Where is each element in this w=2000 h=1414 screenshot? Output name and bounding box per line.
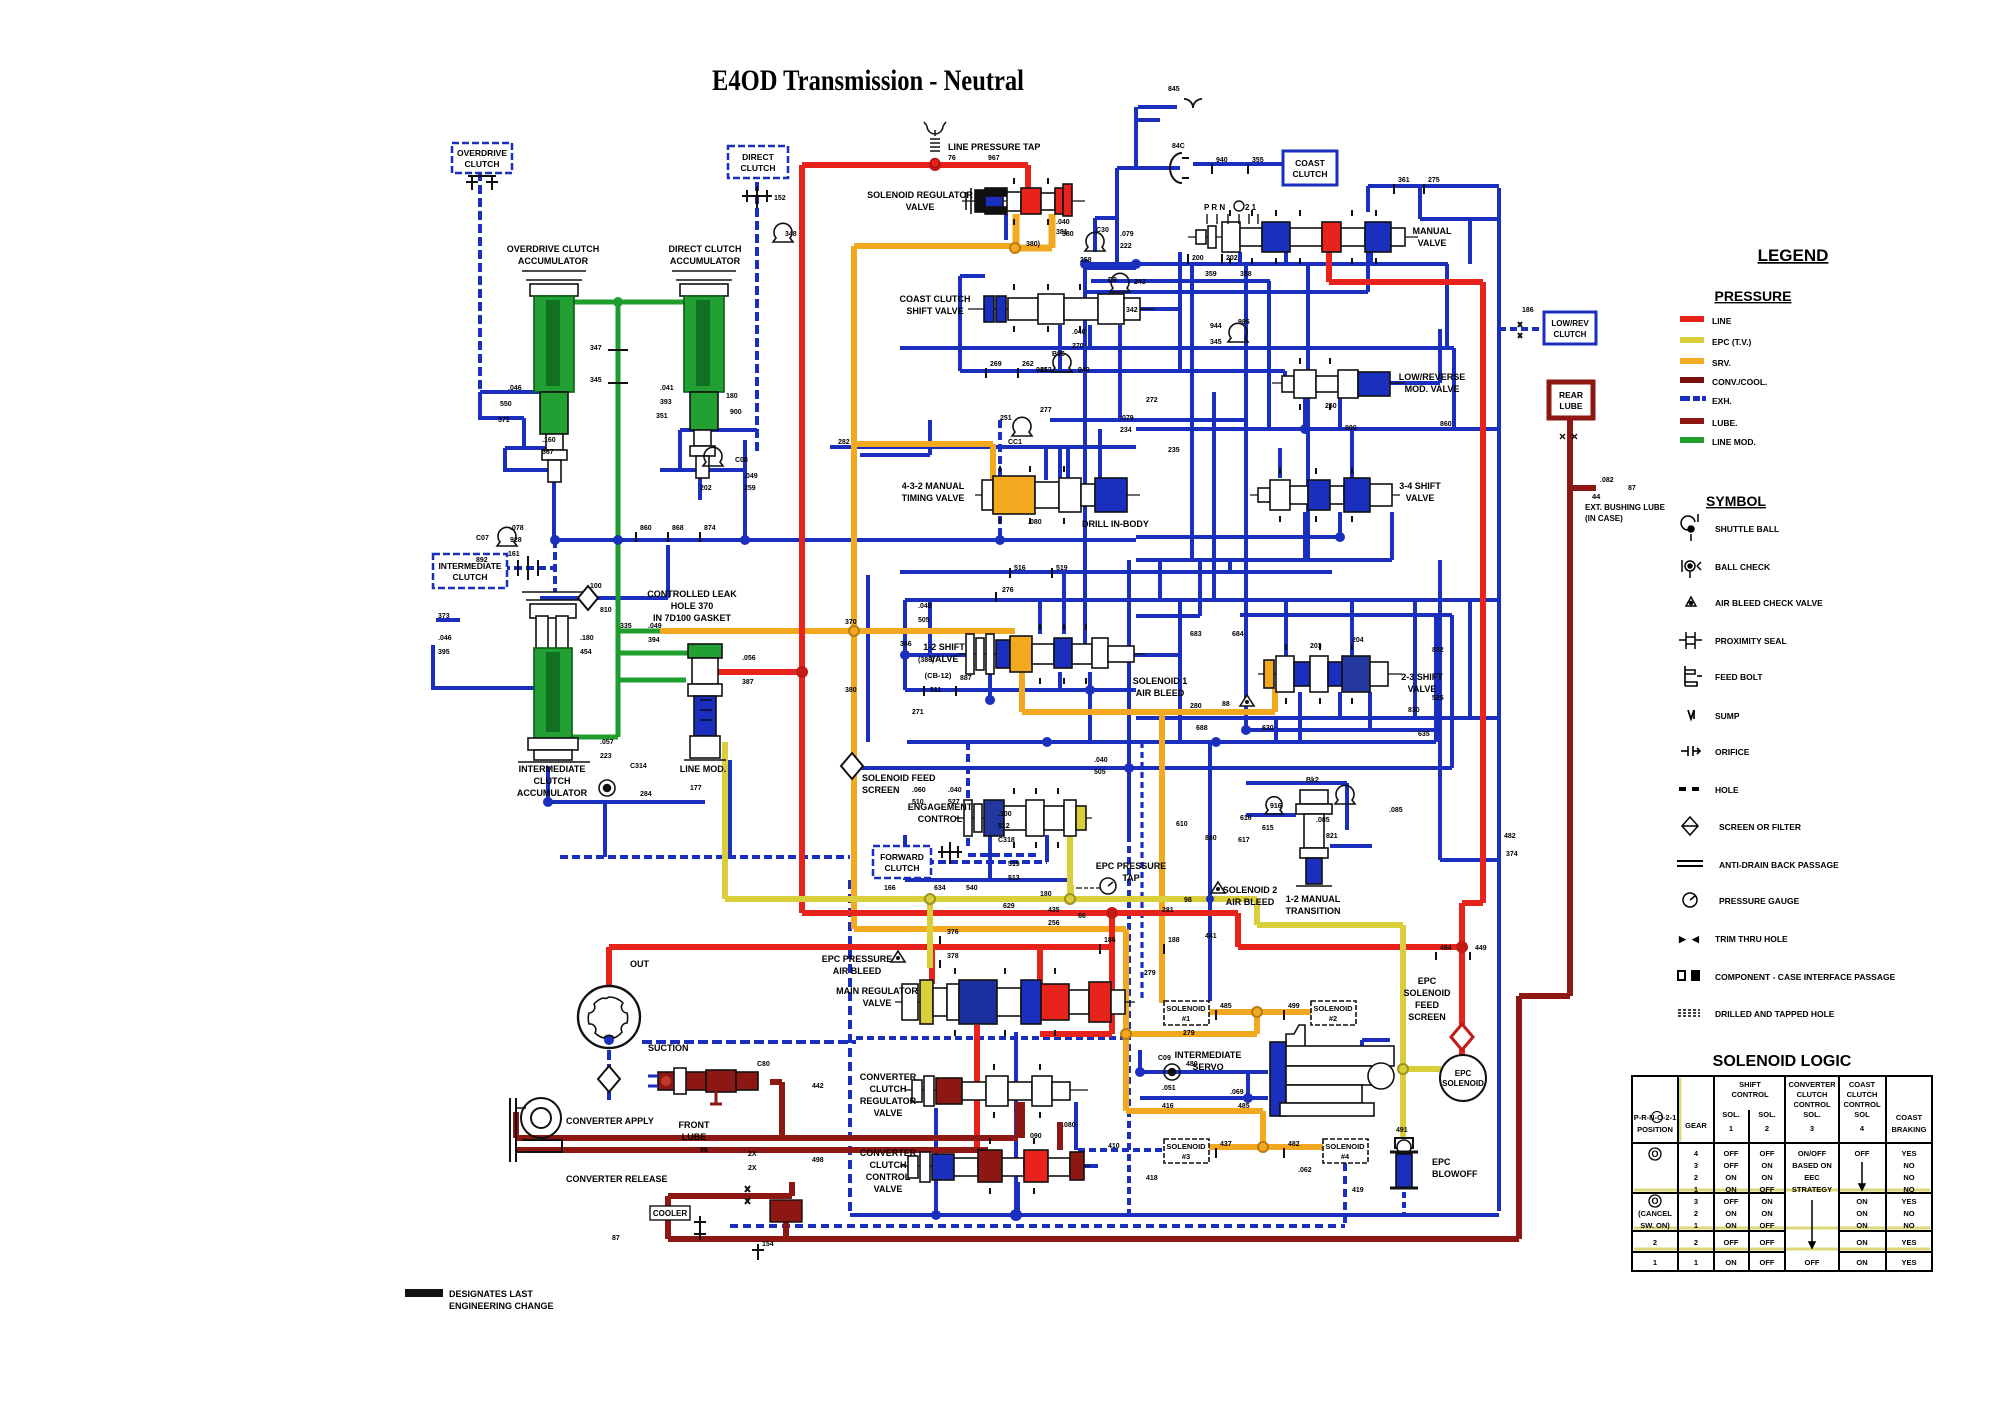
- svg-text:(386): (386): [918, 657, 934, 664]
- svg-text:87: 87: [1628, 485, 1636, 492]
- bell d8: [1110, 273, 1130, 292]
- svg-text:243: 243: [1134, 279, 1146, 286]
- svg-text:IN 7D100 GASKET: IN 7D100 GASKET: [653, 613, 732, 623]
- svg-text:1-2 SHIFT: 1-2 SHIFT: [923, 642, 965, 652]
- svg-text:.085: .085: [1389, 807, 1403, 814]
- wire blowoff bottom stub: [1402, 1192, 1406, 1215]
- svg-text:ON: ON: [1725, 1185, 1736, 1194]
- svg-text:STRATEGY: STRATEGY: [1792, 1185, 1832, 1194]
- wire 2-3 valve top stubs: [1286, 600, 1352, 656]
- wire x1246 vertical: [1244, 429, 1248, 560]
- wire y768: [860, 766, 1452, 770]
- svg-text:.060: .060: [912, 787, 926, 794]
- svg-text:370: 370: [845, 619, 857, 626]
- intermediate clutch accumulator: [518, 592, 590, 762]
- wire servo right riser: [1362, 1040, 1390, 1078]
- converter clutch regulator valve: [905, 1064, 1088, 1118]
- forward clutch box: [873, 846, 931, 878]
- 1-2 manual transition valve: [1296, 790, 1332, 886]
- svg-text:810: 810: [600, 607, 612, 614]
- svg-text:868: 868: [672, 525, 684, 532]
- svg-text:505: 505: [1094, 769, 1106, 776]
- green line main vertical: [570, 302, 618, 737]
- svg-text:INTERMEDIATE: INTERMEDIATE: [519, 764, 586, 774]
- wire x930 middle: [928, 600, 932, 655]
- svg-text:830: 830: [1408, 707, 1420, 714]
- svg-text:418: 418: [1146, 1175, 1158, 1182]
- svg-text:SOLENOID FEED: SOLENOID FEED: [862, 773, 936, 783]
- svg-text:ACCUMULATOR: ACCUMULATOR: [670, 256, 741, 266]
- front lube component: [648, 1068, 758, 1104]
- svg-text:200: 200: [1192, 255, 1204, 262]
- svg-text:485: 485: [1220, 1003, 1232, 1010]
- wire sol2 air bleed drop: [1208, 742, 1212, 1001]
- wire x1246 mid vertical: [1244, 560, 1248, 718]
- svg-text:ORIFICE: ORIFICE: [1715, 747, 1750, 757]
- wire 3-4 valve bottom: [1136, 512, 1392, 560]
- wire y742 long: [907, 740, 1436, 744]
- svg-text:SRV.: SRV.: [1712, 358, 1731, 368]
- svg-text:MANUAL: MANUAL: [1413, 226, 1452, 236]
- red drops into main regulator: [932, 947, 1040, 984]
- svg-text:EPC: EPC: [1455, 1069, 1472, 1078]
- direct clutch accumulator: [672, 271, 736, 478]
- svg-text:COAST: COAST: [1295, 158, 1326, 168]
- svg-text:NO: NO: [1903, 1185, 1914, 1194]
- svg-text:186: 186: [1104, 937, 1116, 944]
- svg-text:279: 279: [1183, 1030, 1195, 1037]
- svg-text:449: 449: [1475, 945, 1487, 952]
- svg-text:CONVERTER: CONVERTER: [860, 1072, 917, 1082]
- svg-text:C314: C314: [630, 763, 647, 770]
- svg-text:373: 373: [438, 613, 450, 620]
- svg-text:LINE PRESSURE TAP: LINE PRESSURE TAP: [948, 142, 1040, 152]
- svg-text:CLUTCH: CLUTCH: [1847, 1090, 1878, 1099]
- svg-text:416: 416: [1162, 1103, 1174, 1110]
- green stub to line mod upper: [618, 651, 688, 656]
- wire lowrev left stub: [1283, 371, 1287, 383]
- svg-text:COOLER: COOLER: [653, 1209, 687, 1218]
- svg-text:.079: .079: [1120, 231, 1134, 238]
- svg-text:96: 96: [700, 1147, 708, 1154]
- bell c07: [497, 527, 517, 546]
- svg-text:967: 967: [988, 155, 1000, 162]
- svg-text:C80: C80: [757, 1061, 770, 1068]
- wire suction line: [609, 1042, 856, 1102]
- svg-text:.080: .080: [1028, 519, 1042, 526]
- svg-text:346: 346: [900, 641, 912, 648]
- svg-text:EXH.: EXH.: [1712, 396, 1732, 406]
- svg-text:271: 271: [912, 709, 924, 716]
- svg-text:394: 394: [648, 637, 660, 644]
- screen diamond int accum: [578, 586, 598, 610]
- symbol orifice: [1681, 746, 1700, 756]
- wire manual valve top: [1368, 186, 1499, 212]
- svg-text:387: 387: [742, 679, 754, 686]
- svg-text:CONVERTER APPLY: CONVERTER APPLY: [566, 1116, 654, 1126]
- overdrive clutch accumulator: [522, 271, 586, 482]
- svg-text:CONTROL: CONTROL: [1843, 1100, 1880, 1109]
- svg-text:NO: NO: [1903, 1161, 1914, 1170]
- svg-text:SHIFT: SHIFT: [1739, 1080, 1761, 1089]
- svg-text:511: 511: [930, 687, 941, 694]
- svg-text:180: 180: [726, 393, 738, 400]
- wire intermediate clutch feed: [502, 540, 555, 592]
- wire coast valve left wiring: [960, 276, 985, 371]
- svg-text:ON: ON: [1856, 1209, 1867, 1218]
- svg-text:SOL.: SOL.: [1722, 1110, 1740, 1119]
- svg-text:525: 525: [1432, 695, 1444, 702]
- srv from line mod (green junction) long east line: [660, 628, 1015, 634]
- svg-text:ON: ON: [1761, 1209, 1772, 1218]
- svg-text:900: 900: [730, 409, 742, 416]
- solenoid 1 box: [1164, 1001, 1209, 1025]
- 4-3-2 manual timing valve: [975, 466, 1140, 524]
- wire 4-3-2 top stubs: [1046, 447, 1068, 480]
- svg-text:880: 880: [1205, 835, 1217, 842]
- svg-text:.085: .085: [1316, 817, 1330, 824]
- ext bushing lube ticks: [1560, 434, 1577, 439]
- wire x850 lower vertical: [848, 880, 852, 1215]
- wire coast valve bottom drops: [1060, 325, 1120, 420]
- svg-text:LINE MOD.: LINE MOD.: [680, 764, 727, 774]
- svg-text:PRESSURE: PRESSURE: [1714, 288, 1791, 304]
- lube ext bushing stub: [1570, 485, 1596, 491]
- srv solenoid1/2 link: [1126, 1012, 1311, 1034]
- bell c30: [1085, 232, 1105, 251]
- svg-text:684: 684: [1232, 631, 1244, 638]
- svg-text:OFF: OFF: [1724, 1197, 1739, 1206]
- svg-text:395: 395: [438, 649, 450, 656]
- wire x1246 upper vertical: [1244, 264, 1248, 429]
- svg-text:CC1: CC1: [1008, 439, 1022, 446]
- svg-text:EPC PRESSURE: EPC PRESSURE: [1096, 861, 1167, 871]
- svg-text:.040: .040: [1072, 329, 1086, 336]
- svg-text:272: 272: [1146, 397, 1158, 404]
- svg-text:202: 202: [700, 485, 712, 492]
- svg-text:CLUTCH: CLUTCH: [1554, 330, 1587, 339]
- svg-text:519: 519: [1008, 861, 1020, 868]
- wire low/rev mod valve feeds: [1180, 292, 1340, 429]
- svg-text:2: 2: [1765, 1124, 1769, 1133]
- svg-text:630: 630: [1262, 725, 1274, 732]
- srv 1-2 valve to 2-3 valve: [1022, 640, 1275, 712]
- svg-text:.160: .160: [542, 437, 556, 444]
- svg-text:3: 3: [1810, 1124, 1814, 1133]
- 2-3 shift valve: [1258, 644, 1402, 704]
- svg-text:MOD. VALVE: MOD. VALVE: [1405, 384, 1460, 394]
- svg-text:.049: .049: [744, 473, 758, 480]
- wire 1-2 valve left feed: [905, 600, 968, 690]
- svg-text:371: 371: [498, 417, 510, 424]
- symbol component case interface passage: [1678, 971, 1699, 980]
- svg-text:CLUTCH: CLUTCH: [741, 163, 776, 173]
- svg-text:610: 610: [1176, 821, 1188, 828]
- solenoid logic table grid: [1632, 1076, 1932, 1271]
- wire y460 stub: [1050, 418, 1120, 422]
- wire y690: [905, 688, 1136, 692]
- svg-text:SCREEN: SCREEN: [862, 785, 900, 795]
- symbol anti-drain back passage: [1677, 861, 1703, 866]
- svg-text:AIR BLEED: AIR BLEED: [1136, 688, 1185, 698]
- svg-text:BASED ON: BASED ON: [1792, 1161, 1832, 1170]
- svg-text:616: 616: [1240, 815, 1252, 822]
- svg-text:ON: ON: [1856, 1238, 1867, 1247]
- svg-text:204: 204: [1352, 637, 1364, 644]
- svg-text:BALL CHECK: BALL CHECK: [1715, 562, 1771, 572]
- svg-text:C318: C318: [998, 837, 1015, 844]
- svg-text:258: 258: [1080, 257, 1092, 264]
- svg-text:POSITION: POSITION: [1637, 1125, 1673, 1134]
- svg-text:PROXIMITY SEAL: PROXIMITY SEAL: [1715, 636, 1787, 646]
- svg-text:SOLENOID LOGIC: SOLENOID LOGIC: [1713, 1053, 1852, 1070]
- svg-text:.046: .046: [508, 385, 522, 392]
- svg-text:235: 235: [1168, 447, 1180, 454]
- svg-text:ON: ON: [1761, 1161, 1772, 1170]
- svg-text:ON: ON: [1856, 1221, 1867, 1230]
- wire cc reg valve drop: [936, 1032, 1016, 1215]
- svg-text:1: 1: [1729, 1124, 1733, 1133]
- svg-text:2: 2: [1653, 1238, 1657, 1247]
- symbol sump: [1688, 710, 1694, 719]
- svg-text:CLUTCH: CLUTCH: [870, 1084, 907, 1094]
- svg-text:AIR BLEED: AIR BLEED: [1226, 897, 1275, 907]
- svg-text:88: 88: [1222, 701, 1230, 708]
- symbol proximity seal: [1679, 632, 1702, 649]
- wire y447 stub: [830, 445, 1136, 449]
- green line accumulator top link: [574, 300, 686, 305]
- svg-text:ON/OFF: ON/OFF: [1798, 1149, 1827, 1158]
- intermediate clutch ticks: [518, 556, 538, 580]
- svg-text:335: 335: [620, 623, 632, 630]
- table arrows: [1809, 1162, 1865, 1248]
- svg-text:494: 494: [1440, 945, 1452, 952]
- svg-text:CLUTCH: CLUTCH: [885, 863, 920, 873]
- svg-text:CONTROL: CONTROL: [918, 814, 963, 824]
- wire x1415 vertical: [1413, 600, 1417, 718]
- epc feed screen diamond: [1451, 1024, 1473, 1050]
- svg-text:AIR BLEED CHECK VALVE: AIR BLEED CHECK VALVE: [1715, 598, 1823, 608]
- svg-text:ACCUMULATOR: ACCUMULATOR: [518, 256, 589, 266]
- svg-text:800: 800: [1345, 425, 1357, 432]
- solenoid 2 box: [1311, 1001, 1356, 1025]
- svg-text:(CANCEL: (CANCEL: [1638, 1209, 1672, 1218]
- manual valve: [1188, 210, 1418, 264]
- svg-text:2: 2: [1694, 1238, 1698, 1247]
- svg-text:VALVE: VALVE: [874, 1184, 903, 1194]
- air bleed solenoid2: [1211, 882, 1225, 893]
- svg-text:519: 519: [1056, 565, 1068, 572]
- svg-text:234: 234: [1120, 427, 1132, 434]
- svg-text:REAR: REAR: [1559, 390, 1583, 400]
- converter clutch control valve: [900, 1138, 1090, 1194]
- svg-text:OFF: OFF: [1760, 1149, 1775, 1158]
- svg-text:BRAKING: BRAKING: [1892, 1125, 1927, 1134]
- bell b06: [1228, 323, 1248, 342]
- wire int accum bottom: [548, 766, 705, 857]
- wire line mod bottom drop: [728, 760, 732, 857]
- wire x1117 drop: [1095, 168, 1117, 264]
- junction dots blue: [543, 259, 1345, 1221]
- srv u-loop under solenoid regulator valve: [1016, 214, 1052, 248]
- wire y572: [900, 560, 1332, 572]
- svg-text:251: 251: [1000, 415, 1012, 422]
- svg-text:1: 1: [1694, 1258, 1698, 1267]
- wire x1180 vertical: [1178, 600, 1182, 742]
- bell bk2: [1335, 785, 1355, 804]
- wire int accum left loop: [433, 620, 538, 688]
- wire sol1 dashed drop: [1140, 742, 1143, 1000]
- svg-text:.056: .056: [742, 655, 756, 662]
- svg-text:VALVE: VALVE: [874, 1108, 903, 1118]
- svg-text:O: O: [1651, 1196, 1658, 1206]
- wire engagement bottom: [905, 835, 1070, 880]
- svg-text:SOLENOID: SOLENOID: [1313, 1004, 1353, 1013]
- svg-text:860: 860: [1440, 421, 1452, 428]
- svg-text:ENGINEERING CHANGE: ENGINEERING CHANGE: [449, 1301, 554, 1311]
- svg-text:SOLENOID: SOLENOID: [1403, 988, 1451, 998]
- conv apply line: [516, 1102, 1018, 1138]
- svg-text:281: 281: [1162, 907, 1174, 914]
- srv drop to solenoid1: [1159, 712, 1165, 1003]
- svg-text:.049: .049: [648, 623, 662, 630]
- svg-text:(CB-12): (CB-12): [925, 671, 952, 680]
- svg-text:HOLE: HOLE: [1715, 785, 1739, 795]
- svg-text:345: 345: [590, 377, 602, 384]
- line pressure tap spring: [924, 122, 946, 168]
- wire y268 stub: [1085, 266, 1136, 270]
- svg-text:LINE MOD.: LINE MOD.: [1712, 437, 1756, 447]
- wire sol reg left drop: [1004, 214, 1008, 240]
- pump: [578, 986, 640, 1048]
- svg-text:154: 154: [762, 1241, 774, 1248]
- direct clutch box: [728, 146, 788, 208]
- svg-text:OVERDRIVE CLUTCH: OVERDRIVE CLUTCH: [507, 244, 600, 254]
- front lube link: [770, 1082, 782, 1138]
- wire x1160 stub: [1158, 560, 1162, 600]
- svg-text:44: 44: [1592, 492, 1601, 501]
- svg-text:LOW/REV: LOW/REV: [1551, 319, 1589, 328]
- srv y932 to solenoid column: [854, 929, 1126, 1111]
- svg-text:SCREEN OR FILTER: SCREEN OR FILTER: [1719, 822, 1801, 832]
- srv long vertical x854: [851, 246, 857, 929]
- svg-text:CONTROL: CONTROL: [866, 1172, 911, 1182]
- svg-text:SUMP: SUMP: [1715, 711, 1740, 721]
- svg-text:TAP: TAP: [1122, 873, 1139, 883]
- wire direct clutch drop: [755, 182, 759, 452]
- svg-text:342: 342: [1126, 307, 1138, 314]
- symbol feed bolt: [1685, 666, 1702, 686]
- label designates last engineering change: [405, 1289, 443, 1297]
- svg-text:DIRECT CLUTCH: DIRECT CLUTCH: [669, 244, 742, 254]
- svg-text:LINE: LINE: [1712, 316, 1732, 326]
- svg-text:SOLENOID REGULATOR: SOLENOID REGULATOR: [867, 190, 973, 200]
- svg-text:98: 98: [1184, 897, 1192, 904]
- red manual valve drop and east loop: [1329, 246, 1483, 947]
- svg-text:381: 381: [1056, 229, 1068, 236]
- wire x1440 vertical: [1438, 560, 1442, 730]
- svg-text:REGULATOR: REGULATOR: [860, 1096, 917, 1106]
- epc solenoid circle: [1440, 1055, 1486, 1101]
- svg-text:GEAR: GEAR: [1685, 1121, 1707, 1130]
- svg-text:76: 76: [948, 155, 956, 162]
- svg-text:VALVE: VALVE: [1406, 493, 1435, 503]
- svg-text:SOLENOID 1: SOLENOID 1: [1133, 676, 1188, 686]
- svg-text:MAIN REGULATOR: MAIN REGULATOR: [836, 986, 918, 996]
- wire y1208 dashed: [730, 1163, 1345, 1226]
- svg-text:YES: YES: [1901, 1149, 1916, 1158]
- svg-text:.040: .040: [1094, 757, 1108, 764]
- svg-text:256: 256: [1048, 920, 1060, 927]
- svg-text:3: 3: [1694, 1197, 1698, 1206]
- svg-text:629: 629: [1003, 903, 1015, 910]
- svg-text:SOL.: SOL.: [1758, 1110, 1776, 1119]
- red pump riser: [606, 947, 612, 986]
- svg-text:4-3-2 MANUAL: 4-3-2 MANUAL: [902, 481, 965, 491]
- svg-text:892: 892: [476, 557, 488, 564]
- svg-text:152: 152: [774, 195, 786, 202]
- wire x868 vertical: [866, 575, 870, 742]
- legend swatch CONV/COOL: [1680, 377, 1704, 383]
- svg-text:CLUTCH: CLUTCH: [1293, 169, 1328, 179]
- svg-text:O: O: [1651, 1149, 1658, 1159]
- table yellow row accents: [1634, 1078, 1930, 1249]
- bell c314: [599, 780, 615, 796]
- svg-text:FRONT: FRONT: [679, 1120, 710, 1130]
- svg-text:821: 821: [1326, 833, 1338, 840]
- red y947 pump line: [609, 913, 1112, 1034]
- svg-text:SOLENOID: SOLENOID: [1166, 1004, 1206, 1013]
- svg-text:SYMBOL: SYMBOL: [1706, 493, 1766, 509]
- svg-text:COAST CLUTCH: COAST CLUTCH: [900, 294, 971, 304]
- svg-text:634: 634: [934, 885, 946, 892]
- svg-text:887: 887: [960, 675, 972, 682]
- wire y616 stub: [1136, 560, 1200, 616]
- svg-text:166: 166: [884, 885, 896, 892]
- svg-text:VALVE: VALVE: [863, 998, 892, 1008]
- svg-text:YES: YES: [1901, 1238, 1916, 1247]
- svg-text:84C: 84C: [1172, 143, 1185, 150]
- misc component ticks: [636, 164, 1522, 1158]
- svg-text:CLUTCH: CLUTCH: [453, 572, 488, 582]
- svg-text:EPC (T.V.): EPC (T.V.): [1712, 337, 1752, 347]
- wire x1470 stub: [1468, 600, 1472, 718]
- wire direct accum right riser: [998, 420, 1002, 540]
- svg-text:OFF: OFF: [1724, 1238, 1739, 1247]
- svg-text:HOLE 370: HOLE 370: [671, 601, 714, 611]
- svg-text:NO: NO: [1903, 1221, 1914, 1230]
- epc engagement control drop: [1067, 836, 1073, 899]
- svg-text:#2: #2: [1329, 1014, 1337, 1023]
- svg-text:491: 491: [1396, 1127, 1408, 1134]
- svg-text:374: 374: [1506, 851, 1518, 858]
- svg-text:FEED BOLT: FEED BOLT: [1715, 672, 1763, 682]
- svg-text:1: 1: [1653, 1258, 1657, 1267]
- svg-text:INTERMEDIATE: INTERMEDIATE: [1175, 1050, 1242, 1060]
- symbol pressure gauge: [1683, 893, 1697, 907]
- svg-text:510: 510: [912, 799, 924, 806]
- symbol air bleed check valve: [1686, 597, 1696, 606]
- svg-text:CONVERTER: CONVERTER: [860, 1148, 917, 1158]
- svg-text:SCREEN: SCREEN: [1408, 1012, 1446, 1022]
- svg-text:262: 262: [1022, 361, 1034, 368]
- coast clutch shift valve: [968, 284, 1155, 332]
- svg-text:SOLENOID: SOLENOID: [1166, 1142, 1206, 1151]
- wire top coast arc line: [1136, 118, 1160, 122]
- svg-text:FEED: FEED: [1415, 1000, 1440, 1010]
- symbol trim thru hole: [1678, 934, 1700, 944]
- conv release line: [516, 1102, 1060, 1156]
